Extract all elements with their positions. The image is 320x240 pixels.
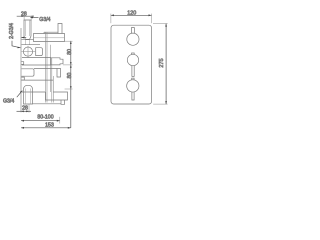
- svg-text:28: 28: [21, 12, 27, 18]
- cartridge block: [51, 58, 63, 65]
- dimension 28 (top) extension lines: [24, 16, 31, 21]
- dimension 28 (bottom) ext line: [28, 105, 30, 113]
- wall block upper: [21, 62, 23, 65]
- dimension 28 (top) arrows: [22, 15, 34, 17]
- leader 2-G3/4: [12, 41, 21, 48]
- port boss: [36, 48, 43, 56]
- dimension 28 (bottom) line: [17, 110, 32, 112]
- chained dim arrows: [70, 41, 72, 44]
- dimension 153 line: [21, 127, 71, 129]
- svg-text:120: 120: [127, 10, 136, 16]
- right chained dim vertical line: [70, 41, 72, 128]
- body top tab: [58, 24, 62, 34]
- knob 3 stem: [132, 92, 134, 100]
- slab line y80: [22, 79, 54, 81]
- dimension 120 ext lines: [111, 14, 152, 24]
- body top box: [34, 34, 65, 42]
- svg-text:80: 80: [67, 73, 73, 79]
- svg-text:80-100: 80-100: [37, 115, 53, 121]
- leader for G3/4 top: [30, 16, 38, 18]
- body column verticals: [46, 32, 54, 102]
- left flange: [22, 39, 41, 44]
- knob 2 circle: [127, 54, 138, 65]
- knob 1 pointer tab: [131, 28, 134, 33]
- body bottom line: [33, 103, 62, 105]
- union nut lower left: [22, 69, 35, 76]
- wide bottom box: [22, 92, 68, 100]
- foot tab: [61, 100, 65, 104]
- bottom outlet port G3/4: [24, 85, 33, 104]
- knob 3 circle: [127, 80, 139, 92]
- ref line at top arrow: [63, 41, 73, 89]
- knob 1 circle: [127, 33, 139, 45]
- svg-text:275: 275: [159, 58, 165, 67]
- 2-G3/4 leader arrow at wall: [21, 37, 26, 39]
- svg-text:G3/4: G3/4: [39, 17, 50, 23]
- svg-text:2-G3/4: 2-G3/4: [9, 23, 15, 39]
- svg-text:28: 28: [22, 106, 28, 112]
- dimension 120 line: [111, 14, 152, 16]
- knob 2 stem: [132, 66, 134, 77]
- knob 2 notch: [132, 53, 135, 55]
- ledge left of tab: [44, 32, 58, 33]
- dimension 80-100 right ext: [59, 117, 61, 124]
- svg-text:G3/4: G3/4: [3, 99, 14, 105]
- svg-text:80: 80: [67, 49, 73, 55]
- link line nut to pin: [34, 68, 57, 70]
- top outlet pipe G3/4: [24, 20, 31, 40]
- inlet port circle (side view): [23, 47, 32, 56]
- pin: [57, 69, 61, 78]
- leader G3/4 bottom: [17, 91, 23, 98]
- wall block lower: [21, 77, 24, 80]
- middle slab top line: [22, 57, 51, 59]
- dimension 80-100 line: [21, 120, 60, 122]
- body top box midline: [34, 37, 65, 39]
- knob 3 notch: [132, 78, 134, 80]
- dimension 275 line: [165, 24, 167, 105]
- port centerlines: [22, 46, 36, 58]
- wire wall mounting plane line: [20, 28, 22, 112]
- dimension 275 ext lines: [153, 24, 168, 105]
- dimension 28 (top) line: [17, 15, 34, 17]
- plate: [111, 25, 152, 104]
- slab line y65: [22, 64, 51, 66]
